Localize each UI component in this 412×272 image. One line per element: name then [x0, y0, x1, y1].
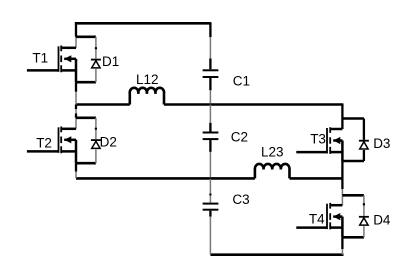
wire C2 bottom lead [209, 140, 211, 152]
wire node23 to C3 [209, 179, 211, 203]
inductor L12 [130, 88, 164, 105]
wire T1 source to node [75, 82, 77, 92]
wire node12 row right [164, 103, 342, 106]
wire top rail [75, 22, 211, 25]
svg-text:T3: T3 [310, 131, 326, 146]
diode D3 [342, 119, 369, 162]
wire C-stack thin above node23 [209, 152, 211, 178]
svg-text:L12: L12 [136, 72, 159, 87]
wire T1 drain top [75, 22, 77, 37]
wire T4 source to bottom rail [341, 237, 343, 249]
wire C1 top lead [209, 59, 211, 70]
diode D4 [342, 195, 369, 237]
svg-text:C2: C2 [231, 130, 248, 145]
wire C1 bottom lead [209, 78, 211, 90]
wire node23 row left [76, 177, 255, 180]
svg-text:T2: T2 [36, 135, 52, 150]
diode D1 [76, 37, 101, 82]
wire T2 source to node23 [75, 163, 77, 171]
transistor T4 [296, 203, 342, 237]
svg-text:C3: C3 [232, 192, 249, 207]
wire node12 to T3 drain [341, 103, 343, 118]
wire C-stack top corner [209, 22, 211, 37]
capacitor C3 [203, 204, 219, 210]
transistor T2 [27, 127, 76, 164]
wire T3 source to node23 [341, 161, 343, 178]
svg-text:D3: D3 [373, 136, 390, 151]
transistor T3 [296, 127, 342, 161]
wire node12 row left [76, 103, 130, 106]
wire bottom rail [210, 253, 343, 256]
svg-text:T4: T4 [309, 211, 325, 226]
svg-text:D1: D1 [102, 54, 119, 69]
wire T3 drain thin [341, 119, 343, 130]
svg-text:C1: C1 [233, 73, 250, 88]
wire C3 bottom lead [209, 211, 211, 217]
wire T1 drain thin [75, 37, 77, 48]
diode D2 [76, 118, 101, 163]
wire T2 drain thin [75, 118, 77, 129]
wire node to T2 drain [75, 105, 77, 110]
capacitor C1 [203, 70, 219, 77]
inductor L23 [255, 164, 290, 178]
wire C-stack thin above node12 [209, 90, 211, 103]
wire node23 row right [290, 177, 343, 180]
capacitor C2 [203, 133, 219, 140]
svg-text:T1: T1 [32, 50, 48, 65]
svg-text:D4: D4 [373, 212, 391, 227]
transistor T1 [27, 46, 76, 83]
wire C-stack thin above C1 [209, 37, 211, 59]
wire node12 to C2 [209, 105, 211, 123]
wire T4 drain thin [341, 195, 343, 205]
wire C-stack thin above bottom rail [209, 217, 211, 255]
wire node23 to T4 drain [341, 178, 343, 189]
svg-text:L23: L23 [261, 144, 284, 159]
svg-text:D2: D2 [100, 135, 117, 150]
